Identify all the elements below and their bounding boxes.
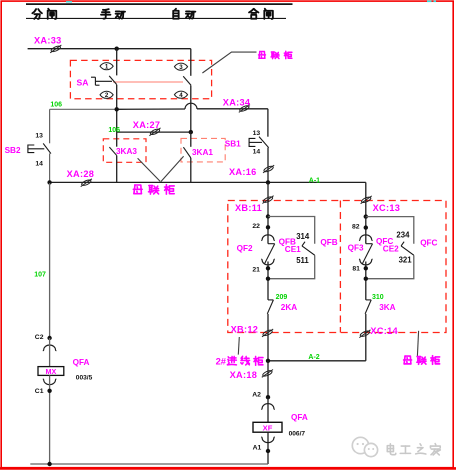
wire hop arc bbox=[185, 103, 197, 109]
wire: XA:18 drop bbox=[267, 361, 269, 397]
svg-text:SA: SA bbox=[77, 78, 89, 88]
terminal break XA:33 bbox=[50, 45, 61, 53]
push-button SB1 (NO) bbox=[259, 137, 269, 148]
svg-text:13: 13 bbox=[253, 130, 261, 137]
closing coil QFA / XF bbox=[261, 404, 275, 410]
terminal break XB:12 bbox=[262, 329, 273, 337]
push-button SB2 (NO) bbox=[43, 143, 51, 153]
auxiliary loop wire (right branch) bbox=[366, 217, 414, 244]
svg-text:QF3: QF3 bbox=[348, 244, 364, 253]
node: bottom-left junction bbox=[47, 462, 51, 466]
svg-text:QFA: QFA bbox=[291, 413, 308, 422]
svg-text:21: 21 bbox=[252, 266, 260, 273]
node: junction on XA:33 rail bbox=[115, 47, 119, 51]
header label 合闸 bbox=[249, 9, 273, 19]
svg-text:2: 2 bbox=[105, 92, 109, 99]
svg-text:XB:12: XB:12 bbox=[231, 325, 259, 335]
svg-text:QFC: QFC bbox=[420, 238, 437, 247]
svg-text:314: 314 bbox=[296, 232, 310, 241]
contact QFB/CE1 (314/511) bbox=[302, 246, 315, 255]
svg-text:3KA3: 3KA3 bbox=[116, 147, 137, 156]
svg-text:C2: C2 bbox=[35, 334, 44, 341]
terminal marker 2 bbox=[100, 91, 113, 98]
svg-text:MX: MX bbox=[46, 367, 57, 376]
node: junction 106/SA left pole bbox=[115, 107, 119, 111]
node 82 bbox=[364, 225, 368, 229]
svg-text:QFB: QFB bbox=[320, 238, 337, 247]
relay contact 2KA bbox=[268, 299, 273, 301]
auxiliary loop wire (left branch) bbox=[268, 217, 315, 244]
terminal break XA:34 bbox=[239, 105, 250, 113]
node: loop top junction (right branch) bbox=[364, 214, 368, 218]
svg-text:XF: XF bbox=[263, 423, 273, 432]
contact QFC/CE2 (234/321) bbox=[401, 246, 414, 255]
svg-text:XA:18: XA:18 bbox=[230, 370, 258, 380]
breaker plug-in contact QF2 bbox=[261, 235, 275, 241]
terminal break XA:18 bbox=[262, 370, 273, 378]
terminal break XC:14 bbox=[359, 330, 370, 338]
svg-text:321: 321 bbox=[399, 256, 413, 265]
node A1 bbox=[266, 449, 270, 453]
wire: 106 rail (y=109) with hop over SA right pole bbox=[50, 108, 117, 110]
svg-text:006/7: 006/7 bbox=[289, 431, 306, 438]
node 22 bbox=[266, 225, 270, 229]
wire: drop to push-button SB2 bbox=[49, 109, 51, 143]
svg-text:QF2: QF2 bbox=[237, 244, 253, 253]
svg-text:106: 106 bbox=[108, 127, 120, 134]
svg-text:A-2: A-2 bbox=[308, 354, 319, 361]
wire: left branch main bbox=[267, 217, 269, 244]
wire: XA:27 rail bbox=[117, 131, 191, 133]
big dashed enclosure: feeder/bus-tie cubicles bbox=[228, 201, 446, 333]
dashed divider between cubicles bbox=[339, 201, 341, 333]
label 母联柜 (bottom right) bbox=[404, 356, 440, 365]
leader to 2#进线柜 label bbox=[238, 337, 239, 355]
wire: right branch main bbox=[365, 217, 367, 244]
terminal marker 3 bbox=[174, 63, 187, 70]
node: loop bottom junction (right branch) bbox=[364, 277, 368, 281]
svg-text:XC:13: XC:13 bbox=[373, 203, 401, 213]
svg-text:234: 234 bbox=[396, 230, 410, 239]
leader line to top bus-tie label bbox=[202, 52, 256, 73]
svg-text:XA:27: XA:27 bbox=[133, 120, 161, 130]
svg-text:107: 107 bbox=[34, 272, 46, 279]
wire: XA:28 / A-1 rail (y=182.4) bbox=[50, 181, 366, 183]
leader to bottom-right 母联柜 label bbox=[417, 331, 418, 356]
svg-text:CE1: CE1 bbox=[285, 245, 301, 254]
wire: XB:11 branch drop bbox=[267, 182, 269, 216]
svg-text:SB1: SB1 bbox=[225, 140, 241, 149]
svg-text:2KA: 2KA bbox=[281, 303, 297, 312]
svg-text:XC:14: XC:14 bbox=[370, 326, 398, 336]
wire: A-2 rail joining branches bbox=[268, 360, 366, 362]
svg-text:XA:28: XA:28 bbox=[67, 169, 95, 179]
shunt coil QFA / MX bbox=[43, 345, 57, 351]
svg-text:A1: A1 bbox=[253, 444, 262, 451]
decorative cyan specks top bbox=[66, 1, 72, 3]
wire: bottom return rail bbox=[30, 463, 268, 465]
svg-text:XA:33: XA:33 bbox=[34, 36, 62, 46]
svg-text:1: 1 bbox=[105, 64, 109, 71]
wire: drop XA:34 to SB1 bbox=[267, 109, 269, 137]
svg-text:2#: 2# bbox=[216, 355, 227, 366]
svg-text:3KA: 3KA bbox=[379, 303, 395, 312]
header table lines bbox=[26, 3, 293, 5]
SA contact 3-4 (right pole) bbox=[190, 49, 192, 76]
svg-text:XB:11: XB:11 bbox=[235, 203, 262, 213]
svg-text:82: 82 bbox=[352, 223, 360, 230]
watermark text 电工之家 bbox=[387, 444, 440, 455]
wire: XC:13 branch drop bbox=[365, 182, 367, 216]
svg-text:3KA1: 3KA1 bbox=[192, 148, 213, 157]
svg-text:209: 209 bbox=[276, 294, 288, 301]
relay contact 3KA1 bbox=[190, 132, 192, 147]
terminal marker 4 bbox=[174, 91, 187, 98]
terminal break XB:11 bbox=[262, 196, 273, 204]
watermark logo (chat bubbles) bbox=[352, 437, 377, 456]
node: loop top junction (left branch) bbox=[266, 214, 270, 218]
relay contact 3KA bbox=[366, 299, 371, 301]
label 母联柜 (top) bbox=[259, 51, 292, 58]
header label 手动 bbox=[101, 9, 125, 19]
dashed enclosure: 3KA1 contact box bbox=[181, 138, 225, 162]
label 母联柜 (middle) bbox=[133, 185, 174, 194]
svg-text:QFA: QFA bbox=[73, 358, 90, 367]
terminal break XA:27 bbox=[149, 128, 160, 136]
svg-text:SB2: SB2 bbox=[5, 146, 21, 155]
relay contact 3KA3 bbox=[116, 132, 118, 147]
wire: left column (107) bbox=[49, 183, 51, 338]
header label 自动 bbox=[173, 9, 195, 19]
node 81 bbox=[364, 266, 368, 270]
svg-text:A-1: A-1 bbox=[309, 178, 320, 185]
SA handle symbol bbox=[94, 77, 96, 85]
svg-text:003/5: 003/5 bbox=[76, 375, 93, 382]
node: loop bottom junction (left branch) bbox=[266, 277, 270, 281]
svg-text:22: 22 bbox=[252, 223, 260, 230]
node: junction A-2/left branch bbox=[266, 359, 270, 363]
svg-text:A2: A2 bbox=[252, 392, 261, 399]
terminal break XA:28 bbox=[81, 179, 92, 187]
svg-text:4: 4 bbox=[179, 92, 183, 99]
mechanical linkage line (pink) bbox=[113, 81, 183, 83]
wire: XA:33 horizontal rail bbox=[28, 48, 191, 50]
terminal break XC:13 bbox=[361, 196, 372, 204]
svg-text:C1: C1 bbox=[35, 388, 44, 395]
svg-text:CE2: CE2 bbox=[383, 244, 399, 253]
svg-text:310: 310 bbox=[372, 294, 384, 301]
breaker plug-in contact QF3 bbox=[359, 235, 373, 241]
svg-text:XA:16: XA:16 bbox=[229, 167, 257, 177]
dashed enclosure: 3KA3 contact box bbox=[103, 139, 146, 163]
svg-text:XA:34: XA:34 bbox=[223, 97, 251, 107]
node C2 bbox=[47, 336, 51, 340]
terminal marker 1 bbox=[100, 63, 113, 70]
node C1 bbox=[47, 389, 51, 393]
node: junction SB2 bbox=[47, 180, 51, 184]
node A2 bbox=[266, 395, 270, 399]
svg-text:106: 106 bbox=[50, 102, 62, 109]
terminal break XA:16 bbox=[263, 165, 274, 173]
svg-text:13: 13 bbox=[35, 132, 43, 139]
leader V lines to middle bus-tie label bbox=[138, 158, 161, 181]
node: junction XA:27/SA right pole bbox=[189, 130, 193, 134]
header label 分闸 bbox=[32, 9, 56, 19]
svg-text:81: 81 bbox=[352, 265, 360, 272]
dashed enclosure: SA selector switch box bbox=[70, 60, 211, 98]
svg-text:14: 14 bbox=[35, 161, 43, 168]
svg-text:3: 3 bbox=[179, 64, 183, 71]
svg-text:511: 511 bbox=[296, 256, 309, 265]
node 21 bbox=[266, 266, 270, 270]
node: junction SB1/A-1 rail bbox=[266, 180, 270, 184]
SA contact 1-2 (left pole) bbox=[116, 49, 118, 76]
svg-text:14: 14 bbox=[253, 148, 261, 155]
